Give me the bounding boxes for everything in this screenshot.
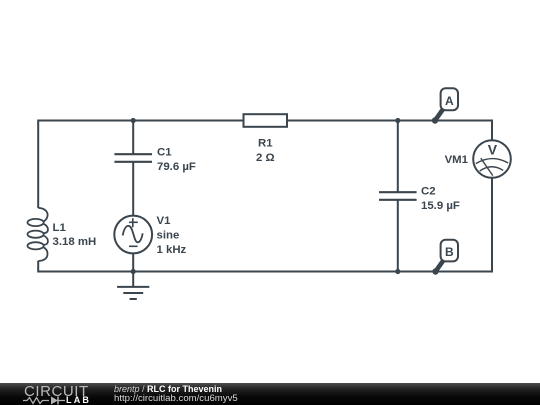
footer line 2 — [114, 393, 238, 404]
terminal B box — [441, 240, 458, 262]
voltmeter VM1 — [473, 140, 511, 178]
svg-text:V1: V1 — [157, 215, 172, 227]
wire top rail — [38, 120, 492, 122]
wire left branch upper — [37, 120, 39, 209]
voltage source V1 — [114, 216, 152, 254]
svg-text:C1: C1 — [157, 147, 172, 159]
inductor L1 — [27, 208, 47, 261]
terminal A pointer — [436, 109, 444, 120]
terminal A box — [441, 88, 458, 110]
logo LAB text — [66, 395, 91, 405]
logo CIRCUIT text — [24, 383, 89, 400]
wire C1 top lead — [132, 121, 134, 155]
wire VM1 bottom lead — [491, 177, 493, 273]
resistor R1 — [244, 114, 288, 127]
svg-text:B: B — [445, 245, 454, 259]
wire left branch lower — [37, 261, 39, 273]
svg-text:C2: C2 — [421, 186, 436, 198]
svg-text:L1: L1 — [53, 222, 67, 234]
node junction top C1 — [131, 118, 136, 123]
wire C2 bottom lead — [397, 200, 399, 272]
svg-text:2 Ω: 2 Ω — [256, 152, 275, 164]
logo waveform — [20, 394, 70, 405]
svg-text:R1: R1 — [258, 138, 273, 150]
footer line 1 — [114, 384, 222, 394]
capacitor C2 — [379, 192, 417, 200]
svg-text:79.6 µF: 79.6 µF — [157, 161, 196, 173]
svg-text:A: A — [445, 94, 454, 108]
wire VM1 top lead — [491, 120, 493, 142]
ground — [117, 272, 149, 300]
terminal A dot — [432, 117, 438, 123]
svg-text:1 kHz: 1 kHz — [157, 244, 187, 256]
svg-text:V: V — [488, 141, 498, 157]
svg-text:VM1: VM1 — [445, 154, 469, 166]
svg-text:15.9 µF: 15.9 µF — [421, 200, 460, 212]
capacitor C1 — [114, 154, 152, 162]
wire C2 top lead — [397, 121, 399, 193]
wire bottom rail — [38, 271, 492, 273]
wire V1 to bottom rail — [132, 253, 134, 272]
terminal B dot — [432, 268, 438, 274]
svg-text:3.18 mH: 3.18 mH — [53, 236, 97, 248]
svg-text:sine: sine — [157, 229, 180, 241]
terminal B pointer — [436, 260, 444, 271]
node junction bottom ground — [131, 269, 136, 274]
node junction top C2 — [395, 118, 400, 123]
node junction bottom C2 — [395, 269, 400, 274]
wire C1 to V1 — [132, 162, 134, 217]
